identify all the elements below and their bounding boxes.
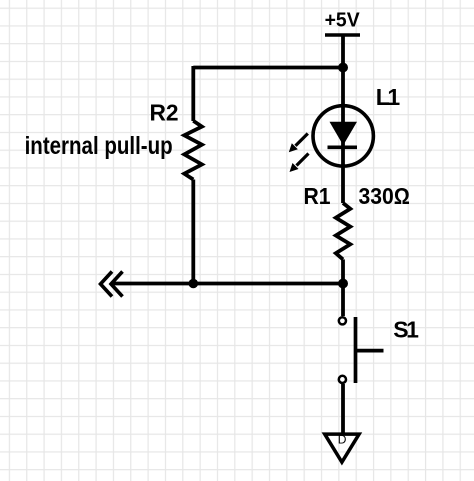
svg-text:S1: S1 bbox=[393, 317, 419, 343]
svg-text:internal pull-up: internal pull-up bbox=[25, 131, 173, 159]
svg-text:330Ω: 330Ω bbox=[359, 183, 411, 209]
svg-text:D: D bbox=[338, 432, 347, 446]
svg-text:L1: L1 bbox=[376, 84, 401, 110]
svg-text:+5V: +5V bbox=[325, 9, 360, 31]
svg-text:R2: R2 bbox=[150, 99, 179, 125]
svg-text:R1: R1 bbox=[304, 183, 331, 209]
